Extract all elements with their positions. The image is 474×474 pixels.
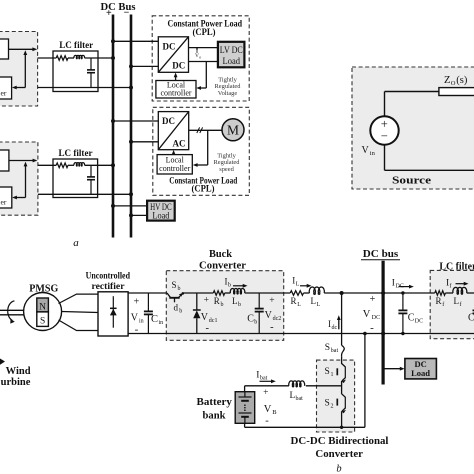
- svg-text:-: -: [265, 415, 269, 426]
- svg-text:dc2: dc2: [273, 316, 282, 322]
- svg-text:L: L: [297, 302, 301, 308]
- svg-text:(CPL): (CPL): [193, 27, 216, 37]
- svg-text:L: L: [317, 302, 321, 308]
- svg-text:+: +: [269, 296, 274, 306]
- svg-text:L: L: [296, 282, 300, 288]
- svg-text:L: L: [454, 296, 460, 306]
- svg-text:b: b: [178, 286, 181, 292]
- svg-text:S: S: [172, 280, 177, 290]
- svg-text:Load: Load: [152, 211, 169, 221]
- svg-text:O: O: [451, 80, 456, 87]
- svg-text:S: S: [325, 343, 330, 353]
- svg-text:DC-DC Bidirectional: DC-DC Bidirectional: [291, 436, 389, 447]
- svg-text:V: V: [201, 312, 209, 323]
- svg-text:B: B: [272, 409, 277, 416]
- svg-text:V: V: [362, 145, 370, 156]
- svg-text:b: b: [179, 309, 182, 315]
- svg-text:LC filter: LC filter: [439, 261, 474, 272]
- svg-text:+: +: [204, 296, 209, 306]
- svg-text:DC: DC: [372, 315, 380, 321]
- svg-text:C: C: [408, 313, 415, 324]
- svg-text:Voltage: Voltage: [218, 90, 238, 97]
- svg-text:C: C: [247, 313, 254, 324]
- svg-text:b: b: [254, 319, 257, 325]
- svg-text:V: V: [265, 310, 273, 321]
- svg-text:urbine: urbine: [1, 377, 31, 388]
- svg-text:I: I: [256, 371, 259, 381]
- svg-text:+: +: [263, 388, 268, 398]
- svg-text:o: o: [199, 54, 201, 59]
- svg-text:Load: Load: [223, 56, 241, 66]
- svg-text:V: V: [363, 309, 371, 320]
- svg-text:R: R: [436, 296, 442, 306]
- svg-text:f: f: [442, 301, 444, 308]
- svg-text:+: +: [106, 8, 112, 19]
- svg-text:Battery: Battery: [197, 397, 233, 408]
- svg-text:speed: speed: [219, 166, 234, 173]
- svg-text:dc: dc: [332, 325, 338, 331]
- svg-text:DC bus: DC bus: [363, 249, 399, 260]
- svg-text:S: S: [325, 398, 330, 408]
- svg-text:DC: DC: [172, 61, 185, 71]
- svg-text:LC filter: LC filter: [59, 41, 94, 51]
- svg-text:Regulated: Regulated: [214, 159, 241, 166]
- svg-text:Converter: Converter: [315, 449, 363, 460]
- svg-text:−: −: [124, 8, 130, 19]
- svg-text:(CPL): (CPL): [192, 184, 215, 194]
- svg-text:LC filter: LC filter: [59, 149, 94, 159]
- svg-text:Source: Source: [392, 176, 431, 187]
- svg-text:bat: bat: [331, 348, 339, 354]
- svg-text:Converter: Converter: [199, 260, 247, 271]
- svg-text:-: -: [206, 323, 210, 334]
- svg-text:in: in: [159, 320, 164, 326]
- svg-text:b: b: [238, 302, 241, 308]
- svg-text:in: in: [139, 319, 144, 325]
- svg-text:AC: AC: [173, 139, 186, 149]
- svg-text:C: C: [151, 314, 158, 325]
- svg-text:f: f: [460, 301, 462, 308]
- svg-text:N: N: [39, 302, 46, 312]
- svg-text:er: er: [1, 89, 7, 98]
- svg-text:dc1: dc1: [209, 318, 218, 324]
- svg-text:DC: DC: [162, 116, 175, 126]
- svg-text:bank: bank: [203, 411, 226, 422]
- svg-text:Buck: Buck: [209, 249, 232, 260]
- svg-text:S: S: [40, 317, 45, 327]
- svg-text:-: -: [135, 324, 139, 336]
- svg-text:Z: Z: [444, 75, 450, 86]
- svg-text:V: V: [264, 404, 272, 415]
- svg-text:d: d: [174, 303, 179, 313]
- svg-text:-: -: [370, 322, 374, 334]
- svg-text:bat: bat: [260, 376, 268, 382]
- svg-text:(s): (s): [456, 75, 468, 86]
- svg-text:DC: DC: [415, 319, 423, 325]
- svg-text:−: −: [381, 129, 388, 143]
- svg-text:L: L: [311, 296, 317, 306]
- svg-text:+: +: [370, 294, 376, 305]
- svg-text:R: R: [214, 296, 220, 306]
- svg-text:M: M: [227, 123, 239, 138]
- svg-text:1: 1: [331, 372, 334, 378]
- svg-text:L: L: [232, 296, 238, 306]
- svg-text:rectifier: rectifier: [92, 282, 126, 292]
- svg-text:LV DC: LV DC: [220, 45, 243, 55]
- svg-text:V: V: [131, 313, 139, 324]
- svg-text:S: S: [325, 367, 330, 377]
- svg-text:controller: controller: [160, 89, 191, 98]
- svg-text:in: in: [370, 150, 376, 157]
- svg-text:b: b: [336, 464, 341, 474]
- svg-text:b: b: [228, 283, 231, 289]
- svg-text:b: b: [221, 302, 224, 308]
- svg-text:Load: Load: [411, 368, 430, 378]
- svg-text:a: a: [73, 237, 79, 249]
- svg-text:Wind: Wind: [6, 366, 31, 377]
- svg-text:bat: bat: [296, 396, 304, 402]
- svg-text:I: I: [392, 278, 395, 288]
- svg-text:f: f: [450, 282, 452, 289]
- svg-text:er: er: [1, 198, 7, 207]
- svg-text:2: 2: [331, 403, 334, 409]
- svg-text:-: -: [270, 322, 274, 333]
- svg-text:controller: controller: [159, 164, 190, 173]
- svg-text:Uncontrolled: Uncontrolled: [86, 271, 131, 281]
- svg-text:R: R: [291, 296, 297, 306]
- svg-text:DC: DC: [163, 42, 176, 52]
- svg-text:+: +: [134, 297, 140, 308]
